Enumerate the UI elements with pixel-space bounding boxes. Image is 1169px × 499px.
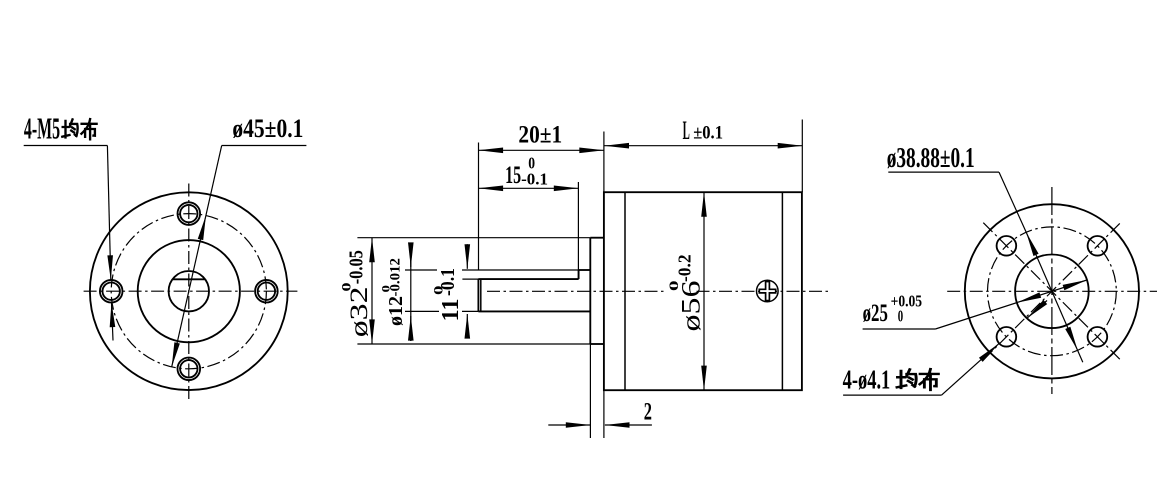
svg-text:L: L — [683, 115, 690, 145]
svg-text:ø25: ø25 — [863, 300, 888, 327]
svg-text:4-ø4.1: 4-ø4.1 — [843, 365, 891, 395]
svg-text:0: 0 — [430, 286, 445, 295]
svg-text:±0.1: ±0.1 — [693, 123, 723, 144]
svg-text:ø32: ø32 — [346, 287, 373, 338]
svg-text:0: 0 — [528, 154, 535, 173]
svg-text:-0.2: -0.2 — [675, 255, 695, 283]
svg-text:0: 0 — [339, 283, 354, 292]
svg-text:2: 2 — [644, 398, 652, 425]
svg-text:+0.05: +0.05 — [891, 292, 923, 311]
svg-text:4-M5: 4-M5 — [24, 112, 60, 146]
svg-text:-0.05: -0.05 — [347, 250, 368, 284]
svg-text:0: 0 — [898, 307, 903, 326]
svg-text:20±1: 20±1 — [518, 121, 562, 149]
svg-text:ø45±0.1: ø45±0.1 — [232, 113, 303, 143]
svg-text:15: 15 — [505, 161, 521, 189]
svg-text:0: 0 — [666, 281, 681, 292]
svg-text:ø38.88±0.1: ø38.88±0.1 — [887, 143, 975, 174]
svg-text:0: 0 — [379, 285, 393, 293]
svg-text:ø12: ø12 — [385, 296, 407, 326]
svg-text:11: 11 — [438, 299, 464, 322]
